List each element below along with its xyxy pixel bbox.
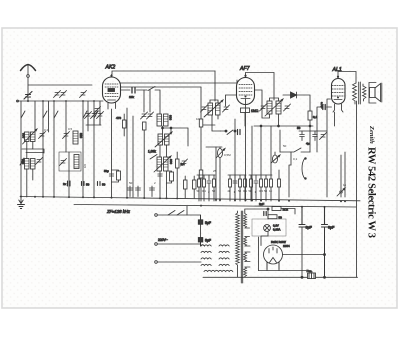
wire AK2 cathode [111,109,113,197]
trimmer capacitor [181,159,188,166]
capacitor [313,131,318,141]
IF transformer II coil a [267,101,272,114]
wire [160,145,167,197]
wire AL1 grid [334,112,336,126]
wire [201,124,215,126]
switch mains [168,211,184,216]
svg-text:220V~: 220V~ [158,238,168,242]
component row group1 [197,175,216,201]
wire [20,101,22,197]
svg-text:RW 542 Selectric W 3: RW 542 Selectric W 3 [366,147,377,238]
svg-text:600: 600 [22,133,26,138]
svg-text:320: 320 [79,133,83,138]
junction [324,254,326,256]
wire right bus vertical [356,101,358,277]
coil L1 [25,132,30,142]
wire [283,254,325,256]
svg-text:50: 50 [279,216,283,220]
capacitor coupling [132,88,135,94]
wire [210,100,218,103]
switch [148,87,155,91]
svg-text:1,09k: 1,09k [148,150,156,154]
trimmer capacitor [39,132,46,139]
svg-text:50: 50 [297,126,301,130]
power transformer winding b [244,237,247,247]
switch [43,111,47,118]
trimmer capacitor [54,91,61,98]
tube AK2 [103,75,121,110]
capacitor cathode bypass [109,174,113,176]
tuning gang trimmer [85,112,92,119]
wire [237,211,239,277]
trimmer capacitor [60,159,67,166]
trimmer capacitor [223,105,230,112]
junction [260,125,262,127]
switch [20,158,24,165]
trimmer capacitor [141,112,148,119]
svg-text:AK2: AK2 [105,65,116,71]
IF transformer II coil b [265,99,283,116]
svg-text:470: 470 [116,116,121,120]
wire [126,108,128,197]
wire [221,130,227,132]
wire [327,99,331,197]
wire [93,101,95,197]
switch [94,111,98,118]
resistor on feed [199,170,203,178]
junctions top rail [27,100,95,102]
mixer coil pair 1 [157,114,168,126]
grid cap AK2 [110,75,112,77]
resistor heater [272,207,281,211]
diode [283,92,310,111]
wire [53,101,55,197]
wire [261,209,268,246]
capacitor bottom row [128,186,133,197]
trimmer capacitor [284,104,291,111]
wire screen [289,165,291,197]
wire [255,90,279,126]
wire [149,90,151,112]
power transformer HT winding [236,213,240,265]
resistor 0,1 [176,152,180,197]
wire [155,90,160,114]
svg-text:0,5: 0,5 [68,127,73,131]
trimmer capacitor [60,91,67,98]
junction [324,276,326,278]
resistor detector [308,111,312,126]
wire gang [86,119,101,126]
wire band link [22,149,44,153]
wire AL1 plate [338,72,356,84]
svg-text:ZF=128 kHz: ZF=128 kHz [106,209,131,214]
heater box [252,219,286,236]
capacitor 5uF a [198,215,203,238]
bandfilter can [59,152,81,171]
ground [18,197,25,209]
wire detector bus [254,125,313,127]
tuning gang trimmer [97,112,104,119]
component row group3 [249,175,273,201]
capacitor 8uF a [299,207,305,277]
potentiometer volume [216,147,225,201]
wire [163,126,189,146]
wire [212,115,221,131]
wire [215,147,217,201]
svg-text:8μF: 8μF [306,226,313,230]
svg-text:25: 25 [213,169,217,173]
wire front-end top rail [17,100,103,102]
svg-text:10k: 10k [129,95,134,99]
svg-text:2μF: 2μF [259,202,264,206]
switch [21,111,25,118]
svg-text:50: 50 [283,144,287,148]
wire taps [245,209,268,277]
svg-text:50μ: 50μ [104,169,109,173]
power transformer winding a [244,214,247,229]
trimmer capacitor [201,105,208,112]
wire [260,126,262,175]
junction [267,208,269,210]
coil L5 [73,131,78,144]
mixer coil pair 3 [154,156,171,172]
trimmer capacitor [260,104,267,111]
svg-text:8μF: 8μF [328,226,335,230]
capacitor antenna series [24,92,32,100]
speaker [369,83,382,104]
wire [87,101,89,131]
trimmer capacitor [147,112,154,119]
junction [225,130,227,132]
wire mains switch line [158,215,201,220]
svg-text:0,2: 0,2 [44,128,49,132]
wire [290,152,292,165]
junction [309,125,311,127]
capacitor 5uF b [198,238,203,247]
coil L3 [25,159,30,170]
resistor row b2 [193,176,197,198]
wire [137,89,148,91]
power transformer core [241,211,242,283]
wire [281,209,295,215]
junction [170,127,172,129]
wire [48,101,50,132]
wire [27,101,35,197]
wire [234,119,236,201]
mains terminal [155,243,158,246]
wire [65,101,67,152]
switch tone [280,148,310,152]
mains terminal [155,261,158,264]
switch [54,111,58,118]
resistor row b1 [184,176,188,198]
rectifier tube [264,245,283,269]
svg-text:0,3: 0,3 [259,189,263,193]
output transformer [353,82,367,104]
svg-text:1054: 1054 [283,244,290,248]
svg-text:50: 50 [129,181,133,185]
resistor cluster b [268,215,277,219]
trimmer capacitor [80,91,87,98]
wire AK2 plate y90 [121,89,131,91]
mains terminal [155,214,158,217]
junction [278,125,280,127]
svg-text:1MΩ: 1MΩ [251,109,259,113]
svg-text:1k: 1k [343,183,347,187]
power transformer winding c [244,252,247,262]
switch [150,155,157,160]
wire y87 [121,86,202,88]
wire [200,87,202,201]
power transformer primary [201,245,233,272]
labels group1 [197,189,216,194]
junction [301,276,303,278]
junction [234,130,236,132]
svg-text:4μ: 4μ [306,142,310,146]
junctions bus [20,196,346,208]
wire osc junction row [206,146,222,148]
coil L6 [74,155,79,169]
capacitor bottom row [150,186,155,197]
capacitor block [68,181,71,186]
capacitor [238,130,241,135]
svg-text:0,1: 0,1 [202,189,206,193]
antenna [21,65,36,71]
wire y83 to AF7 [121,80,238,83]
coil L2 [23,129,38,144]
coil L4 [31,159,36,170]
resistor 470 [123,114,127,136]
svg-text:a.NF: a.NF [320,102,324,109]
wire [82,101,84,197]
wire AF7 cathode [245,105,247,202]
svg-text:50: 50 [238,189,242,193]
potentiometer tone [271,152,280,163]
svg-text:50: 50 [86,183,90,187]
resistor cathode [112,170,121,182]
wire [143,90,145,112]
wire AK2 grid top [112,71,215,75]
capacitor 8uF b [322,207,328,277]
wire [99,101,101,125]
wire AF7 top cap [246,73,275,101]
trimmer capacitor [320,133,327,140]
tuning gang trimmer [91,112,98,119]
wire osc grid drop [214,71,216,101]
wire mains tap [186,206,188,215]
main bus 2 [74,205,356,208]
trimmer capacitor [36,158,43,165]
resistor mixer cathode [167,171,174,183]
svg-text:0,5M: 0,5M [224,153,231,157]
svg-text:0,1: 0,1 [293,157,298,161]
resistor 1M [241,108,250,126]
wire y85 [28,84,92,86]
wire [279,130,281,152]
svg-text:2x: 2x [63,182,67,186]
trimmer capacitor [63,132,70,139]
wire [132,116,134,197]
tube AL1 [332,76,346,113]
svg-text:600: 600 [169,115,173,120]
mixer coil pair 2 [155,132,172,147]
resistor on feed [199,119,203,127]
labels group3 [249,189,273,194]
svg-text:5μF: 5μF [205,221,211,225]
resistor [278,170,281,201]
resistor [143,122,147,197]
wire [344,152,346,197]
trimmer capacitor AK2 [94,107,101,114]
junction cap [82,182,85,186]
svg-text:50: 50 [264,189,268,193]
wire [68,152,70,197]
main bus 1 [20,197,360,201]
wire [316,128,318,152]
wire [42,101,44,197]
wire [270,126,272,175]
junction cap [98,182,101,186]
component row group2 [228,175,247,201]
capacitor AL1 grid [323,105,325,110]
svg-text:50: 50 [212,189,216,193]
wire [259,237,280,271]
wire [27,97,29,101]
svg-text:10: 10 [196,117,200,121]
junction [162,127,164,129]
wire [158,238,205,247]
grid cap AF7 [244,75,246,77]
bottom bus [203,276,358,278]
power transformer winding d [244,267,247,277]
svg-text:0,1: 0,1 [243,189,247,193]
wire [251,126,253,201]
wire [317,107,332,128]
svg-text:50: 50 [102,183,106,187]
svg-text:600: 600 [169,159,173,164]
svg-text:5μF: 5μF [205,239,211,243]
svg-text:50: 50 [197,189,201,193]
svg-text:0,5: 0,5 [83,164,87,169]
wire [158,261,202,263]
switch [83,111,87,118]
oscillator coil assembly [204,100,223,117]
svg-text:Fus.: Fus. [307,269,313,273]
terminal [17,100,19,102]
tube AF7 [237,75,255,105]
wire [309,126,311,152]
wire osc riser [226,95,237,106]
svg-text:AF7: AF7 [239,66,251,72]
capacitor bottom row [136,186,141,197]
capacitor 2u [264,212,266,216]
grid cap AL1 [337,76,339,78]
antenna terminal [27,75,30,78]
wire antenna lead [27,65,29,95]
svg-text:Zenith: Zenith [368,125,375,144]
capacitor [300,131,305,141]
wire low line [259,270,307,272]
junction arrow [337,155,345,197]
fuse [308,273,316,279]
dial lamp [264,225,271,232]
wire NF row [299,130,327,132]
wire [270,98,279,101]
capacitor mixer bypass [158,174,162,176]
svg-text:AL1: AL1 [332,67,342,73]
coupling curve [302,158,306,180]
switch [227,130,233,135]
labels group2 [228,189,248,194]
svg-text:0,35A: 0,35A [273,228,280,232]
